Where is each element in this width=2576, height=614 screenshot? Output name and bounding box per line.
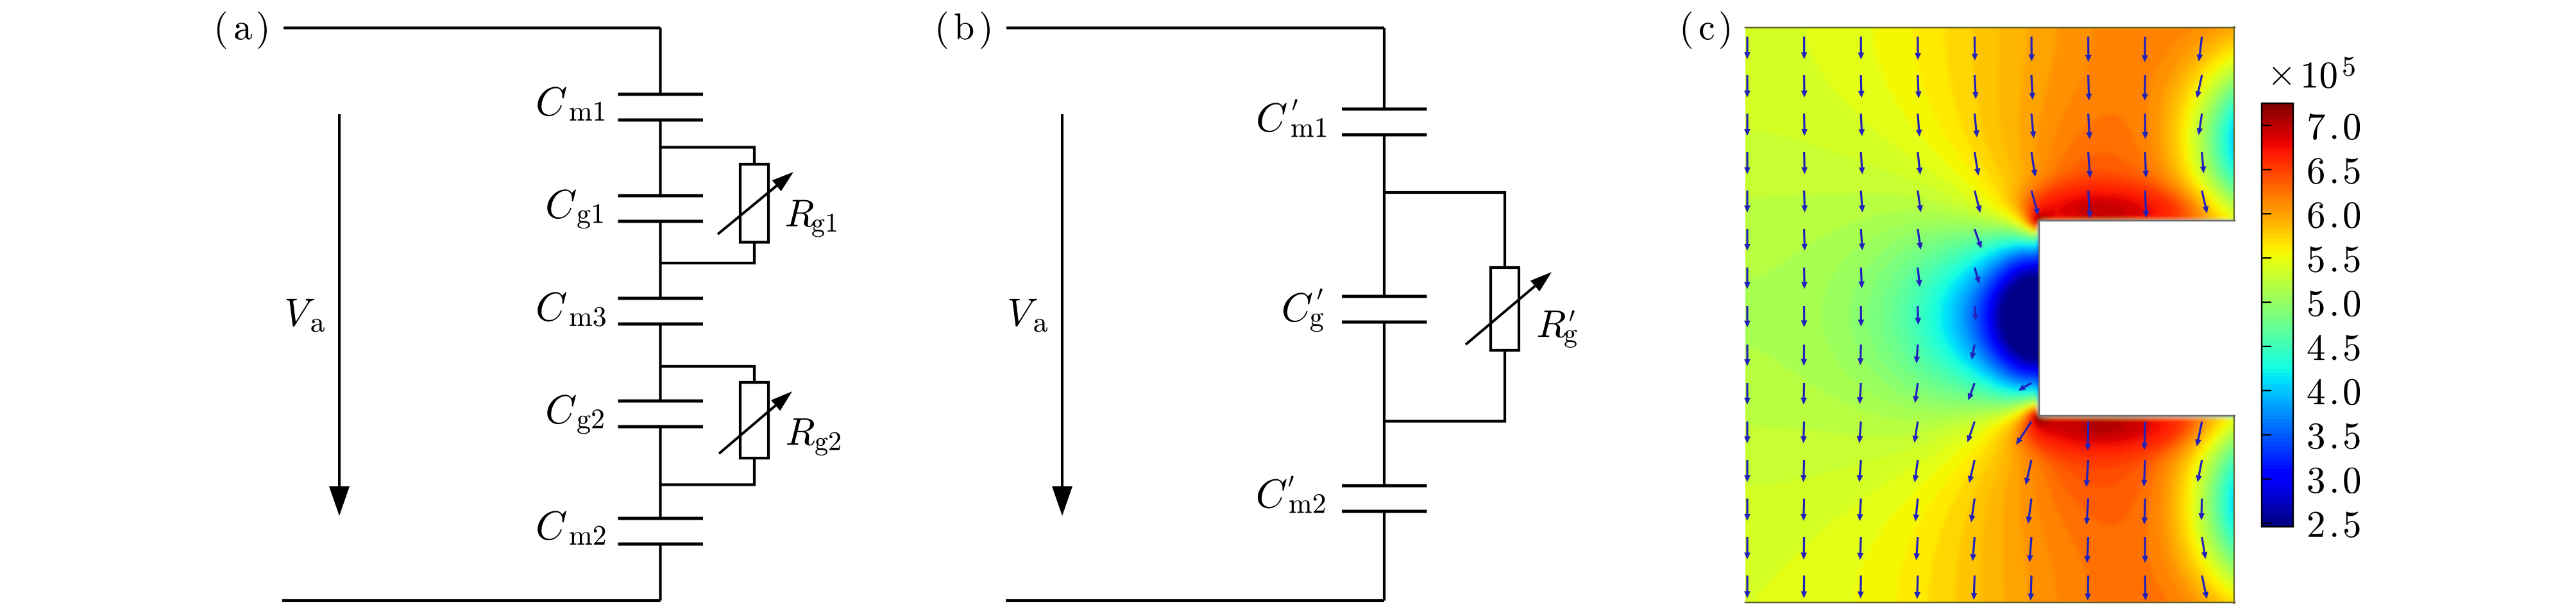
$)$: [1720, 12, 1729, 49]
field arrow: [1801, 345, 1807, 366]
field arrow: [1913, 383, 1919, 403]
$\mathrm{a}$: [1034, 319, 1047, 332]
panel label (c): [1683, 12, 1692, 49]
$\mathrm{a}$: [311, 319, 324, 332]
field arrow: [1801, 37, 1808, 59]
resistor Rg1 body: [740, 164, 768, 243]
contour band level 36: [1897, 9, 2468, 614]
field arrow: [2143, 191, 2149, 218]
field arrow: [1744, 306, 1750, 328]
field arrow: [2084, 499, 2090, 525]
field arrow: [2026, 499, 2032, 524]
wire top (b): [1006, 26, 1384, 29]
contour band level 27: [1867, 71, 2468, 579]
field arrow: [1970, 345, 1976, 360]
field arrow: [2142, 152, 2149, 178]
field arrow: [1744, 37, 1750, 59]
contour band level 50: [2033, 198, 2151, 442]
field arrow: [1801, 306, 1808, 327]
$\mathrm{g2}$: [577, 409, 604, 434]
colorbar gradient: [2262, 103, 2293, 108]
field arrow: [1801, 152, 1808, 175]
contour band level 47: [2029, 183, 2178, 459]
field arrow: [2201, 537, 2207, 559]
label Cg2: [547, 395, 576, 424]
field arrow: [2195, 422, 2203, 447]
field arrow: [2028, 37, 2035, 62]
contour band level 17: [1951, 98, 2469, 549]
field arrow: [1917, 229, 1923, 250]
field arrow: [2087, 152, 2093, 178]
$\mathrm{m3}$: [570, 307, 605, 327]
electrode (white block): [2039, 221, 2235, 416]
contour band level 25: [1893, 76, 2469, 573]
field arrow: [1858, 345, 1864, 365]
field arrow: [1972, 37, 1978, 61]
contour band level 53: [2036, 217, 2046, 423]
arrowhead Va (b): [1052, 486, 1072, 516]
wire: [659, 324, 661, 401]
wire branch R'g bottom: [1384, 350, 1505, 422]
$\mathrm{g}$: [1564, 330, 1577, 348]
contour band level 18: [1945, 95, 2468, 552]
wire: [659, 28, 661, 95]
field arrow: [1857, 460, 1863, 482]
colorbar tick: [2262, 390, 2271, 391]
contour band level 16: [1956, 101, 2468, 545]
capacitor Cg2 bottom plate: [618, 425, 704, 429]
field arrow: [1914, 345, 1920, 364]
field arrow: [1971, 576, 1978, 600]
contour band level 30: [1727, 62, 2468, 590]
capacitor Cm1 top plate: [618, 93, 704, 96]
panel label (b): [938, 12, 947, 49]
variable-resistor arrow Rg2: [719, 405, 775, 454]
contour band level 0: [2000, 225, 2468, 413]
$R$: [787, 418, 815, 445]
contour band level 4: [1992, 224, 2468, 414]
$C$: [547, 189, 576, 219]
$\mathrm{3}$: [2308, 423, 2323, 450]
field arrow: [1915, 37, 1921, 60]
$V$: [286, 299, 314, 327]
colorbar tick: [2262, 302, 2271, 303]
field arrow: [2198, 499, 2205, 520]
$\mathrm{m2}$: [570, 526, 605, 545]
contour band level 35: [1854, 9, 2468, 614]
$\mathrm{4}$: [2308, 379, 2325, 404]
wire: [659, 427, 661, 518]
field arrow: [2029, 75, 2035, 100]
field arrow: [1801, 422, 1807, 443]
field arrow: [1744, 576, 1750, 598]
field arrow: [1859, 191, 1865, 212]
field arrow: [1858, 306, 1865, 327]
contour band level 6: [1987, 224, 2468, 414]
capacitor Cm3 top plate: [618, 297, 704, 300]
field arrow: [1801, 537, 1807, 559]
field arrow: [1913, 460, 1919, 482]
contour band level 34: [1756, 9, 2468, 614]
contour band level 2: [1996, 225, 2468, 414]
field arrow: [1801, 499, 1807, 521]
field arrow: [2018, 382, 2031, 391]
field arrow: [1801, 229, 1808, 251]
field arrow: [1744, 114, 1750, 136]
field arrow: [2142, 537, 2148, 563]
capacitor Cm3 bottom plate: [618, 323, 704, 326]
contour band level 7: [1985, 224, 2469, 414]
field arrow: [2141, 460, 2148, 487]
contour band level 44: [2023, 153, 2468, 614]
contour band level 10: [1977, 123, 2468, 518]
$\mathrm{0}$: [2344, 468, 2360, 494]
wire branch Rg2 bottom: [661, 458, 755, 485]
field arrow: [1744, 460, 1750, 482]
$\mathrm{5}$: [2344, 335, 2360, 361]
contour band level 33: [1727, 9, 2468, 614]
field arrow: [1858, 576, 1864, 599]
contour band level 54: [2037, 219, 2044, 420]
field arrow: [2142, 37, 2148, 62]
contour band level 31: [1727, 58, 2468, 592]
$\mathrm{5}$: [2344, 246, 2360, 273]
$\mathrm{0}$: [2344, 202, 2360, 228]
$.$: [2332, 400, 2336, 404]
$\mathrm{0}$: [2344, 379, 2360, 405]
wire top (a): [284, 26, 661, 29]
field arrow: [1972, 306, 1978, 321]
$\mathrm{g1}$: [812, 214, 836, 237]
colorbar exponent x10^5: [2273, 67, 2291, 85]
$\mathrm{b}$: [955, 13, 974, 40]
$.$: [2332, 445, 2336, 448]
voltage arrow Va (a): [338, 114, 341, 486]
contour band level 52: [2035, 216, 2123, 432]
$\mathrm{7}$: [2309, 114, 2325, 140]
contour band level 20: [1934, 90, 2468, 558]
wire branch Rg1 bottom: [661, 243, 755, 264]
capacitor C'm2 bottom plate: [1342, 510, 1427, 513]
field arrow: [1912, 422, 1919, 443]
$\mathrm{2}$: [2309, 511, 2324, 536]
field arrow: [2016, 421, 2032, 445]
$C$: [538, 292, 566, 321]
field arrow: [1917, 152, 1923, 175]
field arrow: [1858, 114, 1865, 136]
field magnitude heat map: [1727, 9, 2468, 614]
contour band level 3: [1994, 224, 2468, 413]
$.$: [2332, 533, 2336, 537]
$\prime$: [1292, 99, 1298, 110]
contour band level 40: [2003, 9, 2468, 614]
contour band level 29: [1821, 65, 2468, 586]
field arrow: [1970, 537, 1976, 561]
field arrow: [2142, 576, 2149, 601]
$\prime$: [1318, 289, 1323, 300]
field arrow: [2030, 114, 2037, 139]
$\mathrm{m1}$: [1291, 118, 1326, 137]
colorbar tick: [2262, 213, 2271, 214]
$\mathrm{m2}$: [1289, 494, 1325, 513]
colorbar tick: [2262, 169, 2271, 170]
field arrow: [2197, 37, 2203, 62]
label C'm1: [1258, 103, 1287, 132]
field arrow: [1857, 422, 1863, 443]
colorbar tick label: [2308, 468, 2323, 494]
contour band level 23: [1911, 81, 2468, 567]
$\mathrm{5}$: [2344, 423, 2360, 450]
contour band level 19: [1940, 92, 2468, 555]
wire bottom (a): [282, 599, 661, 602]
colorbar tick: [2262, 124, 2271, 126]
contour band level 28: [1849, 67, 2468, 583]
field arrow: [2196, 75, 2203, 98]
$\mathrm{6}$: [2308, 158, 2323, 184]
$V$: [1009, 299, 1037, 327]
$\mathrm{g}$: [1310, 313, 1323, 332]
field arrow: [2141, 422, 2148, 450]
$.$: [2332, 135, 2336, 139]
field arrow: [2086, 114, 2092, 139]
field arrow: [1744, 537, 1750, 559]
wire: [1383, 511, 1385, 601]
field arrow: [1973, 114, 1979, 137]
variable-resistor arrow Rg1: [718, 186, 777, 234]
field arrow: [1968, 460, 1976, 483]
contour band level 42: [2018, 9, 2468, 614]
colorbar tick label: [2309, 511, 2324, 536]
field arrow: [2024, 460, 2033, 485]
resistor Rg2 body: [740, 382, 768, 458]
$\mathrm{m1}$: [570, 102, 604, 121]
field arrow: [1974, 268, 1981, 284]
colorbar tick: [2262, 257, 2271, 259]
field arrow: [2200, 152, 2207, 173]
$\mathrm{5}$: [2344, 511, 2360, 538]
$.$: [2332, 489, 2336, 493]
contour band level 41: [2015, 9, 2468, 614]
$\times$: [2273, 67, 2291, 85]
field arrow: [1974, 191, 1982, 213]
field arrow: [1744, 422, 1750, 443]
colorbar tick: [2262, 434, 2271, 436]
electrode border top: [2039, 220, 2235, 221]
$\mathrm{3}$: [2308, 468, 2323, 494]
field arrow: [1914, 576, 1920, 599]
$($: [938, 12, 947, 49]
$C$: [538, 511, 566, 540]
wire branch R'g top: [1384, 192, 1505, 268]
$\prime$: [1570, 311, 1575, 321]
field arrow: [2084, 537, 2090, 563]
field arrow: [1858, 37, 1864, 60]
contour band level 5: [1990, 224, 2468, 414]
$($: [1683, 12, 1692, 49]
field arrow: [2028, 576, 2034, 601]
field arrow: [1744, 75, 1750, 98]
field arrow: [1972, 75, 1979, 99]
field arrow: [2087, 191, 2093, 218]
field arrow: [2027, 537, 2033, 562]
field arrow: [2142, 114, 2149, 139]
arrowhead Rg1: [772, 172, 793, 191]
wire: [659, 544, 661, 601]
contour band level 45: [2026, 169, 2189, 487]
$C$: [1284, 293, 1312, 322]
capacitor Cm2 top plate: [618, 517, 704, 520]
$)$: [981, 12, 990, 49]
$\mathrm{0}$: [2344, 114, 2360, 140]
field arrow: [1858, 75, 1865, 98]
$.$: [2332, 312, 2336, 316]
field arrow: [1744, 268, 1750, 289]
wire: [659, 120, 661, 196]
map border top: [1745, 27, 2235, 29]
field arrow: [1967, 422, 1976, 443]
contour band level 13: [1968, 110, 2468, 534]
field arrow: [2196, 460, 2203, 482]
$\prime$: [1289, 476, 1294, 487]
$C$: [1258, 103, 1287, 132]
contour band level 26: [1881, 74, 2469, 576]
map border right upper: [2233, 27, 2235, 221]
field arrow: [2085, 422, 2091, 451]
$C$: [547, 395, 576, 424]
capacitor C'm2 top plate: [1342, 484, 1427, 488]
colorbar tick label: [2308, 202, 2323, 228]
field arrow: [1744, 152, 1750, 175]
field arrow: [1913, 499, 1919, 522]
field arrow: [2197, 114, 2203, 135]
field arrow: [2086, 75, 2092, 101]
$.$: [2332, 223, 2336, 227]
colorbar tick label: [2308, 335, 2325, 360]
field arrow: [2085, 37, 2092, 62]
field arrow: [1915, 75, 1922, 98]
$\mathrm{g2}$: [815, 432, 840, 456]
field arrow: [1801, 114, 1808, 136]
capacitor Cg1 bottom plate: [618, 220, 704, 223]
colorbar tick: [2262, 478, 2271, 479]
contour band level 11: [1974, 118, 2468, 524]
field arrow: [1801, 383, 1807, 405]
field arrow: [1917, 191, 1923, 212]
label C'm2: [1258, 479, 1287, 509]
field arrow: [2084, 460, 2090, 488]
field arrow: [1744, 345, 1750, 366]
field arrow: [2201, 576, 2208, 599]
contour band level 37: [1929, 9, 2468, 614]
field arrow: [2142, 499, 2148, 525]
$R$: [1538, 311, 1566, 337]
$\mathrm{0}$: [2344, 291, 2360, 317]
contour band level 9: [1980, 130, 2468, 508]
contour band level 51: [2034, 202, 2139, 438]
colorbar tick: [2262, 346, 2271, 347]
colorbar tick label: [2308, 158, 2323, 184]
contour band level 21: [1927, 87, 2468, 561]
field arrow: [2201, 191, 2208, 214]
$5$: [2343, 57, 2355, 76]
variable-resistor arrow R'g: [1466, 286, 1535, 345]
wire: [1383, 135, 1385, 296]
colorbar tick label: [2309, 114, 2325, 140]
label Cm3: [538, 292, 566, 321]
arrowhead Rg2: [771, 391, 792, 411]
field arrow: [2031, 191, 2040, 216]
wire: [1383, 28, 1385, 110]
field arrow: [1744, 499, 1750, 521]
field arrow: [1974, 229, 1982, 249]
field arrow: [1859, 229, 1865, 250]
field arrow: [1801, 191, 1808, 212]
map border bottom: [1745, 602, 2235, 604]
$\mathrm{a}$: [235, 22, 251, 40]
map border right lower: [2233, 416, 2235, 603]
contour band level 24: [1902, 79, 2468, 570]
contour band level 48: [2031, 188, 2170, 452]
colorbar tick label: [2309, 246, 2324, 273]
field arrow: [1858, 268, 1865, 289]
field arrow: [1801, 460, 1807, 482]
contour band level 39: [1981, 9, 2468, 614]
field arrow: [1801, 576, 1808, 598]
capacitor C'm1 bottom plate: [1342, 133, 1427, 137]
contour band level 15: [1960, 104, 2468, 542]
contour band level 12: [1971, 114, 2468, 530]
$\mathrm{5}$: [2309, 291, 2324, 317]
field arrow: [2142, 75, 2148, 101]
$.$: [2332, 179, 2336, 183]
arrowhead R'g: [1530, 272, 1552, 291]
label Va (b): [1009, 299, 1037, 327]
field arrow: [1744, 229, 1750, 251]
panel label (a): [217, 12, 226, 49]
label Cm1: [538, 87, 566, 116]
$\mathrm{6}$: [2308, 202, 2323, 228]
contour band level 1: [1998, 225, 2468, 414]
electrode border bottom: [2039, 415, 2235, 416]
field arrow: [1915, 306, 1921, 325]
capacitor Cg2 top plate: [618, 400, 704, 403]
colorbar frame: [2262, 103, 2293, 527]
field arrow: [1744, 383, 1750, 405]
label C'g: [1284, 293, 1312, 322]
capacitor Cg1 top plate: [618, 194, 704, 198]
$)$: [258, 12, 267, 49]
contour band level 22: [1919, 84, 2468, 564]
$R$: [786, 200, 814, 227]
field arrow: [1859, 152, 1865, 175]
field arrow: [1916, 114, 1922, 137]
contour band level 38: [1956, 9, 2468, 614]
colorbar tick label: [2308, 379, 2325, 404]
$\mathrm{5}$: [2309, 246, 2324, 273]
contour band level 8: [1983, 223, 2468, 414]
$C$: [538, 87, 566, 116]
field arrow: [1974, 152, 1981, 176]
contour band level 43: [2021, 9, 2468, 614]
field arrow: [2085, 576, 2091, 601]
$10$: [2303, 62, 2337, 89]
$C$: [1258, 479, 1287, 509]
label Rg1: [786, 200, 814, 227]
field arrow: [1801, 75, 1808, 98]
capacitor Cm1 bottom plate: [618, 119, 704, 122]
label Cg1: [547, 189, 576, 219]
contour band level 32: [1727, 55, 2468, 597]
